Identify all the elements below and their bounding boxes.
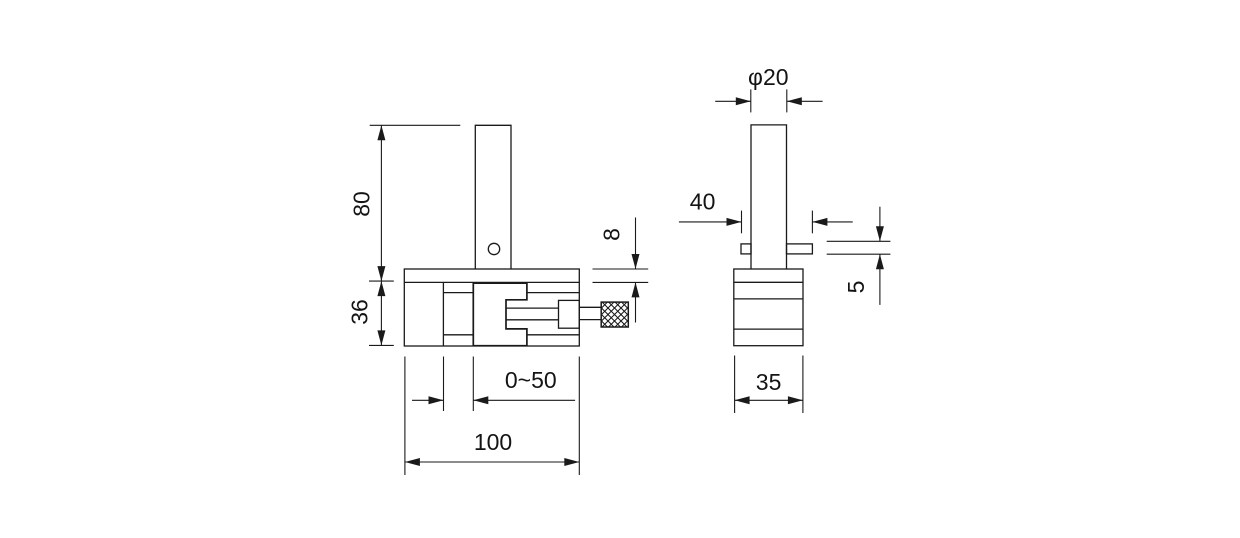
front view: lead screw upper line [506,307,559,309]
dimension 40: arrow right [727,218,742,226]
dimension phi20: dimension line left part [715,100,751,102]
dimension 0~50: extension line right [472,357,474,412]
dimension 5: extension line upper [827,240,891,242]
dimension 8: arrow up [632,282,640,297]
dimension 80: extension line top [370,124,461,126]
svg-text:80: 80 [349,191,375,217]
front view: base top plate line [404,281,579,283]
svg-text:φ20: φ20 [748,64,789,90]
dimension 8: label [599,228,625,241]
dimension 36: extension tick bottom [369,344,394,346]
dimension 0~50: dimension line left part [412,399,444,401]
dimension phi20: extension line left [750,89,752,112]
dimension 40: arrow left [812,218,827,226]
svg-text:36: 36 [347,299,373,325]
front view: knob shaft lines [579,307,601,319]
dimension 5: arrow down [876,226,884,241]
dimension 8: extension line upper [593,268,649,270]
front view: knurled knob [564,290,665,335]
svg-text:35: 35 [756,369,782,395]
front view: guide slot upper line [443,292,579,294]
dimension 35: label [756,369,782,395]
dimension 100: extension line left [404,357,406,476]
dimension 100: arrow left [405,458,420,466]
svg-text:0~50: 0~50 [505,367,557,393]
front view: base body outline [404,269,579,346]
dimension 8: dimension line below [635,282,637,322]
dimension 35: extension line right [802,356,804,414]
dimension 5: extension line lower [827,253,891,255]
front view: hole in column [488,243,499,254]
front view: lead screw lower line [506,319,559,321]
side view: clamp flange left tab [741,244,751,254]
dimension 80: arrow down [377,266,385,281]
side view: clamp flange right tab [787,244,813,254]
svg-text:8: 8 [599,228,625,241]
dimension 36: arrow down [377,330,385,345]
dimension 36: dimension line [380,281,382,345]
dimension phi20: extension line right [786,89,788,112]
side view: base body outline [734,269,803,346]
dimension 100: arrow right [564,458,579,466]
dimension 0~50: extension line left [443,357,445,412]
dimension 40: dimension line right part [812,221,852,223]
dimension 0~50: arrow left [473,396,488,404]
dimension 8: dimension line above [635,218,637,270]
front view: sliding clamp block [473,283,527,346]
dimension 80: dimension line [380,125,382,281]
dimension 100: extension line right [578,357,580,476]
dimension 80: arrow up [377,125,385,140]
side view: vertical column post [751,125,787,269]
dimension 40: extension line right [811,211,813,234]
svg-text:40: 40 [690,188,716,214]
dimension 36: arrow up [377,281,385,296]
dimension 5: dimension line below [879,254,881,305]
dimension 80: label [349,191,375,217]
front view: vertical column post [475,125,511,269]
dimension phi20: arrow left [787,97,802,105]
dimension 5: label [843,281,869,294]
dimension phi20: dimension line right part [787,100,823,102]
dimension 5: dimension line above [879,207,881,242]
dimension 35: arrow left [735,396,750,404]
dimension 8: arrow down [632,254,640,269]
dimension 0~50: label [505,367,557,393]
front view: inner vertical wall [442,282,444,346]
front view: screw bearing block [559,300,580,328]
dimension 40: label [690,188,716,214]
side view: base layer line 3 [734,328,803,330]
svg-text:100: 100 [474,429,512,455]
dimension 35: arrow right [788,396,803,404]
front view: guide slot lower line [443,334,579,336]
dimension 100: dimension line [405,461,579,463]
dimension 40: extension line left [741,211,743,234]
svg-text:5: 5 [843,281,869,294]
side view: base layer line 2 [734,298,803,300]
dimension 0~50: arrow right [429,396,444,404]
dimension 5: arrow up [876,254,884,269]
side view: base layer line 1 [734,281,803,283]
dimension 8: extension line lower [593,281,649,283]
dimension 100: label [474,429,512,455]
dimension 36: label [347,299,373,325]
dimension 35: extension line left [734,356,736,414]
dimension 80/36: shared extension tick [369,280,394,282]
dimension 35: dimension line [735,399,803,401]
dimension phi20: label [748,64,789,90]
dimension 40: dimension line left part [679,221,742,223]
dimension 0~50: dimension line right part [473,399,575,401]
dimension phi20: arrow right [736,97,751,105]
